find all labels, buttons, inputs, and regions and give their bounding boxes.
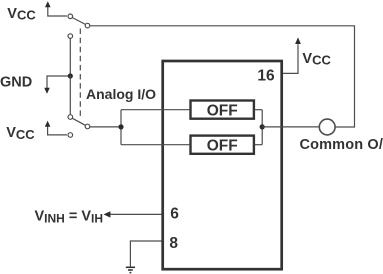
IC U1 outline <box>163 61 282 269</box>
terminal circle Common O/I <box>319 119 335 135</box>
svg-text:VCC: VCC <box>7 6 36 23</box>
svg-text:8: 8 <box>169 235 178 252</box>
wire S1 pole to Common O/I node <box>90 26 355 127</box>
svg-text:16: 16 <box>257 68 275 85</box>
switch S1 pole contact <box>85 23 90 28</box>
switch S1 lever <box>72 18 85 25</box>
svg-text:Common O/I: Common O/I <box>300 137 383 153</box>
junction GND node <box>68 73 73 78</box>
svg-text:GND: GND <box>0 75 32 91</box>
wire right bus to Common O/I terminal <box>262 126 319 128</box>
switch S2 throw contact (to VCC) <box>68 133 73 138</box>
switch S1 throw contact (to VCC) <box>68 14 73 19</box>
power symbol VCC (top left) <box>45 1 67 16</box>
wire S2 pole to left bus <box>90 126 121 128</box>
wire lower OFF box to right bus <box>255 144 263 146</box>
wire left bus to upper OFF box <box>121 109 190 111</box>
mechanical link (dashed) between S1 and S2 <box>79 29 81 117</box>
wire left bus vertical <box>120 110 122 145</box>
ground arrow symbol GND <box>44 76 70 94</box>
wire GND node down to switch S2 upper throw <box>69 76 71 115</box>
svg-text:Analog I/O: Analog I/O <box>86 86 156 102</box>
ground symbol (pin 8) <box>126 267 135 272</box>
switch S2 lever <box>72 118 85 125</box>
power symbol VCC (pin 16) <box>295 37 301 44</box>
svg-text:VINH = VIH: VINH = VIH <box>35 209 104 226</box>
analog switch box OFF (lower) <box>191 136 254 155</box>
analog switch box OFF (upper) <box>191 101 254 120</box>
arrowhead into VINH label <box>104 211 111 217</box>
svg-text:VCC: VCC <box>6 125 35 142</box>
svg-text:OFF: OFF <box>207 103 238 120</box>
svg-text:OFF: OFF <box>207 138 238 155</box>
wire right bus vertical <box>261 110 263 145</box>
switch S2 pole contact <box>85 124 90 129</box>
wire S1 lower throw down to GND node <box>69 39 71 77</box>
switch S2 throw contact (to GND) <box>68 115 73 120</box>
pin 6 wire <box>110 213 162 215</box>
switch S1 throw contact (to GND) <box>68 34 73 39</box>
svg-text:VCC: VCC <box>302 51 331 68</box>
junction left bus <box>118 124 123 129</box>
junction right bus <box>260 124 265 129</box>
pin 16 wire <box>283 44 298 73</box>
wire upper OFF box to right bus <box>255 109 263 111</box>
svg-text:6: 6 <box>170 206 179 223</box>
wire left bus to lower OFF box <box>121 144 190 146</box>
power symbol VCC (lower left) <box>45 121 67 135</box>
pin 8 wire <box>130 241 161 267</box>
